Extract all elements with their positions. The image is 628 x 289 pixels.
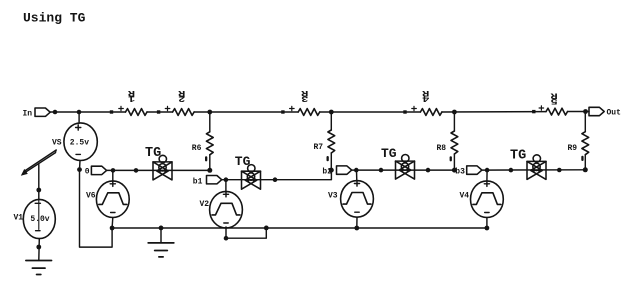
resistor R5	[546, 108, 568, 115]
junction R7 bottom / node b2	[329, 168, 334, 173]
pin marker square R2 pin1	[157, 110, 160, 113]
transmission gate U1	[153, 155, 172, 180]
junction node between R2 and R6	[207, 110, 212, 115]
pin 1 marker R6	[205, 156, 207, 161]
junction R9 bottom corner	[583, 167, 588, 172]
svg-text:Out: Out	[607, 109, 622, 118]
node b1 off-page connector	[207, 176, 222, 184]
svg-text:In: In	[23, 110, 33, 119]
resistor R2	[173, 109, 195, 116]
wire V1 top	[38, 165, 40, 201]
wire node 0 return (L shape)	[80, 170, 113, 248]
voltage source V4 (pulse)	[471, 170, 504, 228]
svg-text:2.5v: 2.5v	[70, 139, 89, 148]
pin marker + R4	[412, 106, 417, 110]
resistor R7 (with connecting wires)	[328, 112, 335, 170]
label R1 (rotated)	[127, 88, 135, 103]
junction	[77, 110, 82, 115]
svg-text:3: 3	[301, 93, 308, 103]
svg-text:b2: b2	[322, 167, 332, 176]
svg-text:V3: V3	[328, 191, 338, 200]
svg-text:TG: TG	[381, 146, 397, 161]
wire ground rail	[112, 227, 487, 229]
junction	[273, 177, 278, 182]
junction V6 top	[111, 168, 116, 173]
svg-text:5.0v: 5.0v	[30, 215, 49, 224]
junction node between R3 and R7	[329, 110, 334, 115]
svg-text:V1: V1	[14, 214, 24, 223]
transmission gate U2	[242, 165, 261, 190]
wire	[147, 111, 173, 113]
svg-text:1: 1	[128, 93, 135, 103]
label R4 (rotated)	[421, 88, 429, 103]
pin marker + R5	[539, 106, 544, 110]
resistor R6 (with connecting wires)	[206, 112, 213, 170]
wire stage 2	[222, 170, 332, 180]
wire	[320, 111, 421, 113]
svg-text:Using TG: Using TG	[23, 11, 86, 26]
junction R6 bottom corner	[207, 168, 212, 173]
svg-text:VS: VS	[52, 138, 62, 147]
svg-text:5: 5	[551, 96, 558, 106]
label R2 (rotated)	[177, 88, 185, 103]
node 0 off-page connector	[91, 166, 106, 174]
junction node Out / R9 top	[583, 109, 588, 114]
transmission gate U3	[396, 155, 415, 180]
svg-text:V6: V6	[86, 191, 96, 200]
wire top bus segment A	[50, 111, 125, 113]
wire	[568, 111, 590, 113]
voltage source V2 (pulse)	[210, 180, 243, 239]
pin marker + R1	[119, 106, 124, 110]
junction rail ground tap	[159, 226, 164, 231]
voltage source VS 2.5v	[64, 112, 97, 170]
svg-text:2: 2	[178, 93, 185, 103]
pin 1 marker R9	[581, 156, 583, 161]
wire V2 bottom jog	[226, 228, 266, 238]
junction	[426, 168, 431, 173]
svg-text:TG: TG	[145, 146, 161, 161]
pin marker square R1 pin1	[110, 110, 113, 113]
wire	[194, 111, 298, 113]
resistor R8 (with connecting wires)	[451, 112, 458, 170]
voltage source V6 (pulse)	[96, 170, 129, 228]
svg-text:R6: R6	[192, 144, 202, 153]
node b3 off-page connector	[467, 166, 482, 174]
pin marker square R3 pin1	[281, 110, 284, 113]
junction	[379, 168, 384, 173]
ground symbol (V1)	[26, 261, 52, 275]
wire stage 3	[352, 169, 455, 171]
resistor R3	[298, 109, 320, 116]
wire stage 4	[482, 169, 585, 171]
svg-text:R7: R7	[314, 143, 324, 152]
junction	[134, 168, 139, 173]
svg-text:b1: b1	[193, 178, 203, 187]
node In (off-page connector)	[23, 108, 51, 119]
resistor R1	[126, 109, 148, 116]
junction rail V4 bottom	[485, 226, 490, 231]
junction rail left / V6 bottom	[110, 226, 115, 231]
node Out (off-page connector)	[589, 107, 621, 117]
junction V2 bottom	[224, 236, 229, 241]
label R3 (rotated)	[300, 88, 308, 103]
svg-text:4: 4	[422, 93, 429, 103]
svg-text:0: 0	[85, 167, 90, 176]
transmission gate U4	[527, 155, 546, 180]
junction	[53, 110, 58, 115]
junction node between R4 and R8	[452, 110, 457, 115]
junction V4 top	[485, 168, 490, 173]
pin marker + R3	[290, 106, 295, 110]
svg-text:TG: TG	[235, 154, 251, 169]
junction	[557, 168, 562, 173]
resistor R9 (with connecting wires)	[582, 112, 589, 170]
pin marker square R4 pin1	[403, 110, 406, 113]
svg-text:R9: R9	[568, 144, 578, 153]
svg-text:TG: TG	[510, 149, 526, 164]
switch lever (V1 feed)	[21, 150, 56, 176]
junction rail V3 bottom	[354, 226, 359, 231]
voltage source V1 5.0v	[23, 199, 55, 260]
wire stage 1	[107, 169, 210, 171]
svg-text:R8: R8	[437, 144, 447, 153]
junction V1 top	[36, 188, 41, 193]
resistor R4	[420, 109, 442, 116]
junction	[509, 168, 514, 173]
pin marker + R2	[165, 106, 170, 110]
junction V3 top	[354, 168, 359, 173]
svg-text:b3: b3	[455, 167, 465, 176]
junction R8 bottom / node b3	[452, 168, 457, 173]
pin marker square R5 pin1	[532, 110, 535, 113]
svg-text:V4: V4	[460, 191, 470, 200]
voltage source V3 (pulse)	[341, 170, 374, 228]
label R5 (rotated)	[550, 90, 558, 105]
junction V2 top	[224, 177, 229, 182]
junction rail V2 return	[264, 226, 269, 231]
junction V1 bottom	[36, 245, 41, 250]
pin 1 marker R7	[327, 156, 329, 161]
node 0 junction at VS minus	[77, 167, 82, 172]
node b2 off-page connector	[337, 166, 352, 174]
svg-text:V2: V2	[200, 200, 210, 209]
wire	[442, 111, 546, 113]
pin 1 marker R8	[450, 156, 452, 161]
ground symbol (rail)	[148, 228, 174, 257]
